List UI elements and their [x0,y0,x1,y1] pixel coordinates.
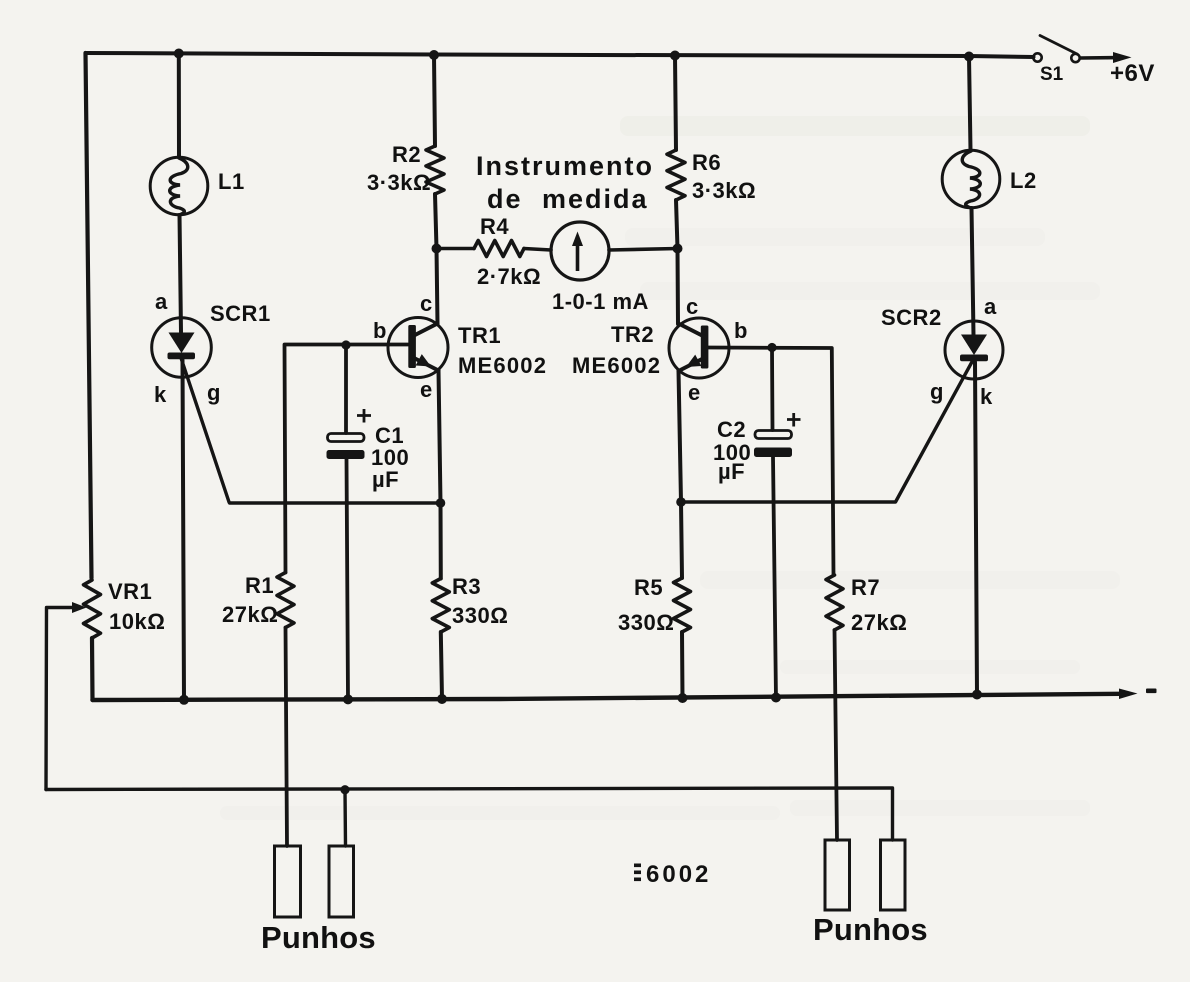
node SCR1 k ground [179,695,189,705]
resistor R5 body [674,578,691,632]
svg-text:SCR1: SCR1 [210,301,271,326]
wire SCR1 gate lead diagonal and horizontal to emitter node [181,358,441,503]
resistor R3 body [432,579,449,633]
ground rail end arrowhead [1119,689,1138,700]
wire SCR2 gate lead diagonal and horizontal to emitter node [681,360,973,502]
thyristor SCR2 [945,321,1003,379]
svg-text:1-0-1 mA: 1-0-1 mA [552,289,649,314]
svg-text:µF: µF [718,459,745,484]
lamp L1 [150,157,208,215]
node SCR2 k ground [972,690,982,700]
wire left electrode 2 from bus [343,790,347,846]
svg-text:R1: R1 [245,573,274,598]
svg-text:a: a [155,289,168,314]
svg-text:TR2: TR2 [611,322,654,347]
wire C1 bottom lead to ground rail [347,459,349,700]
resistor R2 body [426,146,444,194]
node R4 left [432,244,442,254]
thyristor SCR1 [152,318,212,378]
node electrode bus tap [340,785,349,794]
VR1 wiper arrowhead [72,602,87,613]
wire VR1 wiper lead [46,608,74,790]
node R6 top [670,51,680,61]
svg-text:ME6002: ME6002 [572,353,661,378]
wire left outer branch (top rail down to VR1) [86,53,92,578]
svg-text:R2: R2 [392,142,421,167]
svg-text:Punhos: Punhos [813,912,928,947]
wire top supply rail [86,53,1034,57]
svg-text:c: c [420,291,433,316]
wire R1 down through rail to left electrode [286,628,288,847]
wire L1 branch: top rail to lamp L1 [177,54,181,158]
resistor R7 body [826,575,843,630]
wire R4 left lead from node [437,247,475,251]
svg-text:+6V: +6V [1110,60,1155,87]
wire R6 branch: top rail down to zigzag [675,56,676,151]
svg-text:3·3kΩ: 3·3kΩ [367,170,431,195]
node R5 ground [678,693,688,703]
svg-text:R4: R4 [480,214,509,239]
node C2 base [767,343,776,352]
svg-text:TR1: TR1 [458,323,501,348]
svg-text:g: g [207,380,221,405]
svg-text:b: b [734,318,748,343]
wire TR2 base lead with corner down to R7 [708,348,834,576]
svg-text:g: g [930,379,944,404]
meter M1 (1-0-1 mA) [551,222,609,280]
wire R2 to node below (R4/TR1 collector node) [435,194,438,324]
svg-text:6002: 6002 [646,861,711,888]
resistor R1 body [277,573,294,628]
svg-text:L2: L2 [1010,168,1037,193]
svg-text:Instrumento: Instrumento [476,151,654,181]
wire C1 top lead from base node [344,345,348,433]
switch S1 [1033,36,1131,64]
wire TR1 base lead with corner down to R1 [285,345,409,573]
wire C2 bottom lead to ground rail [773,457,776,699]
svg-text:27kΩ: 27kΩ [851,610,907,635]
svg-text:VR1: VR1 [108,579,152,604]
wire R4 right lead into meter [524,249,551,251]
electrode rod 2 (left pair) [329,846,354,917]
transistor TR1 [388,318,448,378]
stray print colon marks [634,864,641,882]
node C2 ground [771,693,781,703]
svg-text:C2: C2 [717,417,746,442]
node C1 base [341,340,350,349]
capacitor C2 [754,413,801,457]
electrode rod 3 (right pair) [825,840,850,910]
resistor R4 body [474,241,524,257]
wire meter right lead to R6 node [609,249,678,251]
wire lamp L1 to SCR1 anode [180,215,182,332]
paper ghost artifacts [220,116,1120,820]
node L2 top [964,52,974,62]
transistor TR2 [669,318,729,378]
svg-text:27kΩ: 27kΩ [222,602,278,627]
wire bottom electrode bus (second rail) [46,788,893,840]
svg-text:de medida: de medida [487,184,649,214]
svg-text:3·3kΩ: 3·3kΩ [692,178,756,203]
svg-text:SCR2: SCR2 [881,305,942,330]
svg-text:Punhos: Punhos [261,920,376,955]
node L1 top [174,49,184,59]
node C1 ground [343,694,353,704]
wire C2 top lead from base node [770,348,774,431]
capacitor C1 [327,409,372,459]
svg-text:R5: R5 [634,575,663,600]
wire TR2 emitter down to gate node and R5 [679,371,683,579]
svg-text:330Ω: 330Ω [452,603,508,628]
svg-text:b: b [373,318,387,343]
lamp L2 [942,150,1000,208]
svg-text:L1: L1 [218,169,245,194]
wire bottom ground rail [93,694,1121,700]
resistor R6 body [667,150,685,200]
svg-text:ME6002: ME6002 [458,353,547,378]
svg-text:a: a [984,294,997,319]
svg-text:µF: µF [372,467,399,492]
svg-text:k: k [154,382,167,407]
node TR1 emitter / gate [436,498,446,508]
svg-text:10kΩ: 10kΩ [109,609,165,634]
electrode rod 4 (right pair) [881,840,906,910]
wire R7 down through rail to electrode [835,630,838,840]
svg-text:R7: R7 [851,575,880,600]
svg-text:330Ω: 330Ω [618,610,674,635]
node R2 top [429,50,439,60]
svg-text:S1: S1 [1040,64,1064,85]
wire SCR2 cathode down to ground rail [975,362,977,695]
svg-text:e: e [420,377,433,402]
node meter right [673,244,683,254]
node TR2 emitter / gate [676,497,686,507]
wire SCR1 cathode down to ground rail [183,360,185,700]
svg-text:k: k [980,384,993,409]
wire R2 branch: top rail down to zigzag [434,55,435,146]
wire R5 to ground rail [680,632,685,699]
wire lamp L2 to SCR2 anode [972,208,974,335]
svg-text:c: c [686,294,699,319]
minus dash after ground rail arrow [1146,689,1157,694]
potentiometer VR1 body [84,580,101,638]
svg-text:2·7kΩ: 2·7kΩ [477,264,541,289]
wire VR1 bottom to ground rail [90,638,95,700]
svg-text:e: e [688,380,701,405]
svg-text:R3: R3 [452,574,481,599]
wire TR1 emitter down to gate node and R3 [439,371,441,579]
wire R3 to ground rail [441,632,442,699]
wire L2 branch: top rail to lamp L2 [969,57,971,151]
node R3 ground [437,694,447,704]
svg-text:R6: R6 [692,150,721,175]
wire R6 to node / TR2 collector [676,200,678,324]
electrode rod 1 (left pair) [275,846,301,917]
